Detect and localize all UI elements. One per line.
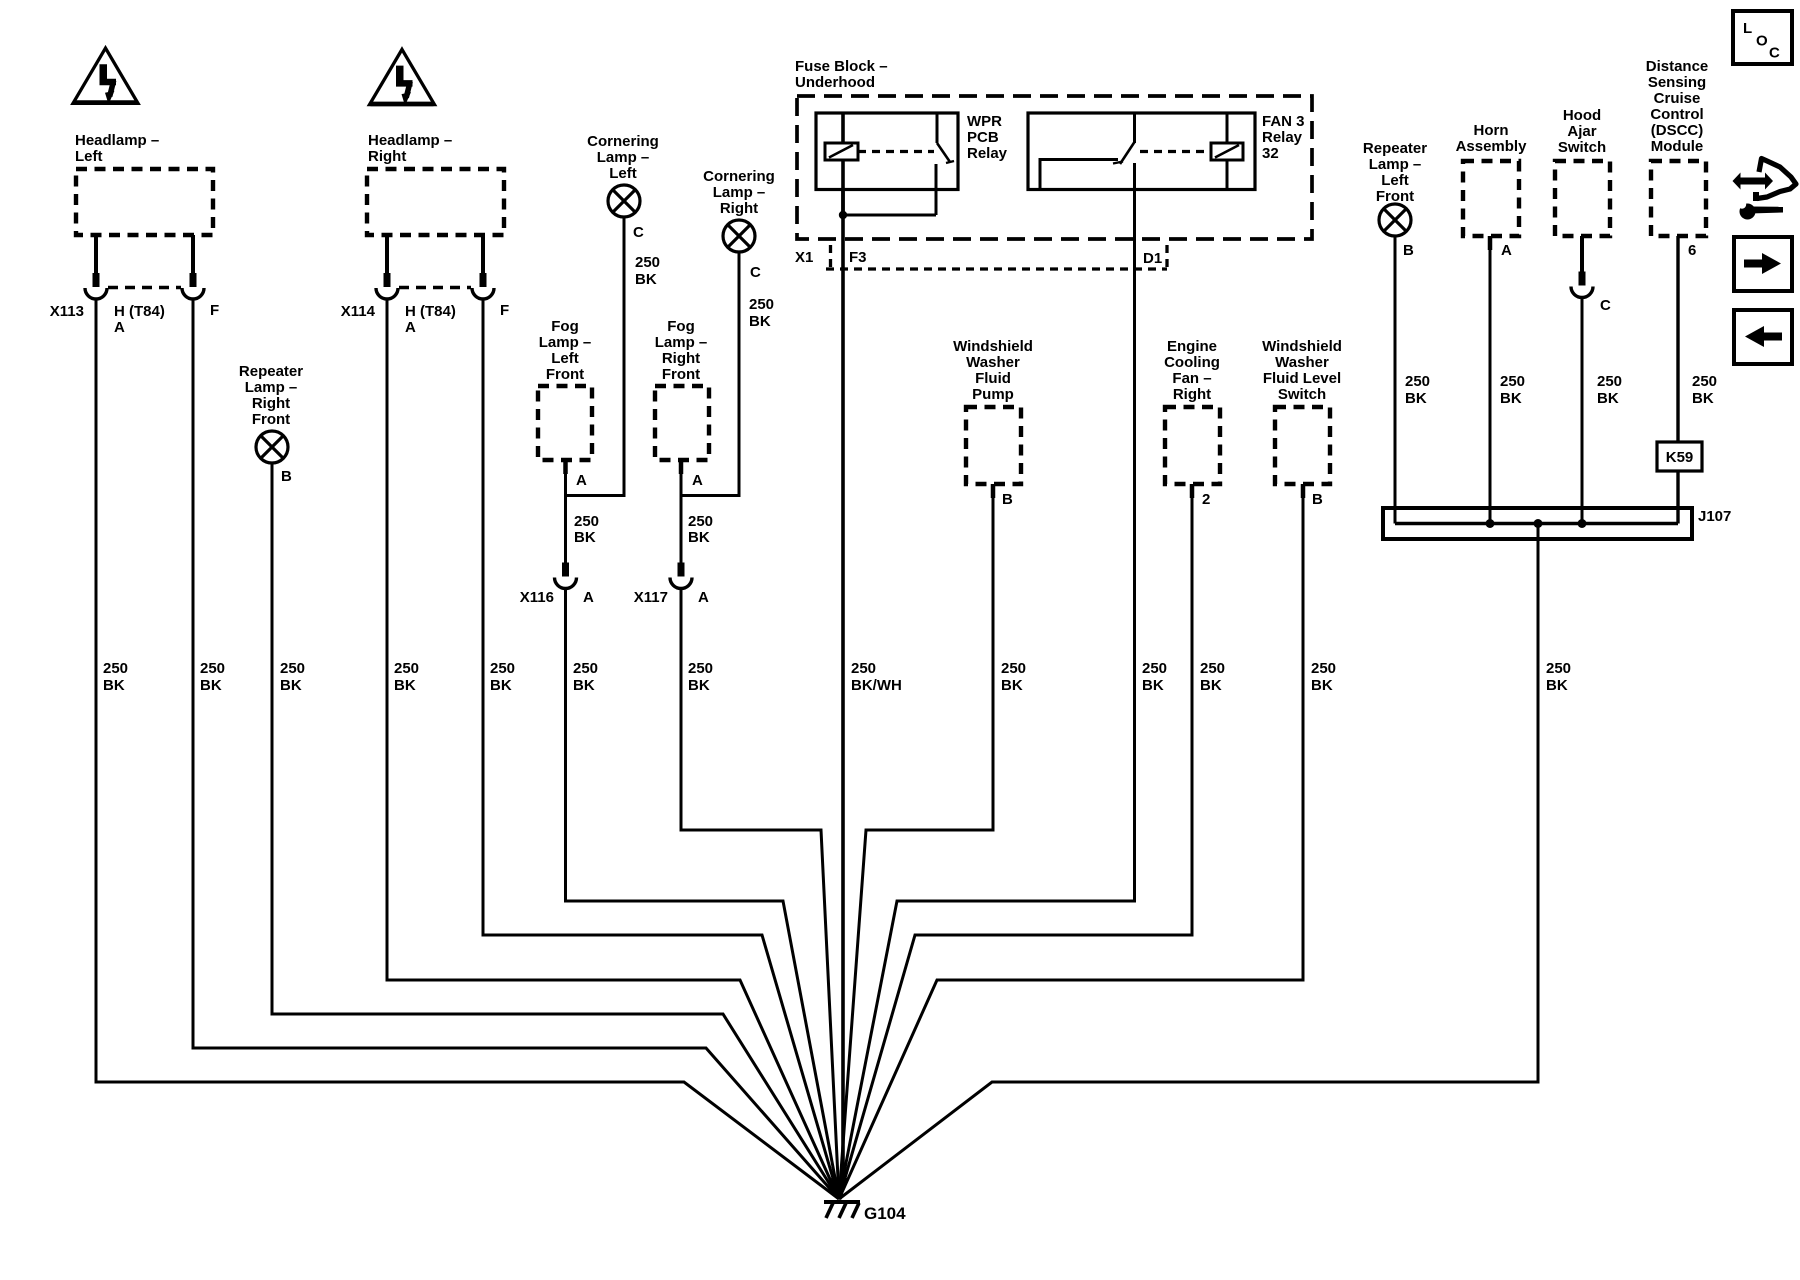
svg-text:2: 2 [1202, 491, 1210, 508]
svg-text:C: C [1769, 45, 1780, 62]
svg-text:Fluid Level: Fluid Level [1263, 370, 1341, 387]
svg-text:Sensing: Sensing [1648, 74, 1706, 91]
svg-text:Left: Left [1381, 172, 1409, 189]
svg-text:Distance: Distance [1646, 58, 1709, 75]
svg-text:K59: K59 [1666, 449, 1694, 466]
svg-text:Headlamp –: Headlamp – [368, 132, 452, 149]
svg-text:Lamp –: Lamp – [539, 334, 592, 351]
svg-text:Lamp –: Lamp – [1369, 156, 1422, 173]
svg-text:Right: Right [720, 200, 758, 217]
svg-text:250: 250 [573, 660, 598, 677]
svg-text:F: F [210, 302, 219, 319]
svg-text:X116: X116 [520, 589, 554, 606]
svg-text:Cruise: Cruise [1654, 90, 1701, 107]
svg-text:Switch: Switch [1278, 386, 1326, 403]
svg-text:BK: BK [1001, 677, 1023, 694]
svg-text:BK: BK [688, 677, 710, 694]
svg-text:Control: Control [1650, 106, 1703, 123]
svg-text:250: 250 [688, 660, 713, 677]
svg-text:Front: Front [546, 366, 584, 383]
svg-text:H (T84): H (T84) [114, 303, 165, 320]
svg-text:BK: BK [280, 677, 302, 694]
svg-text:X114: X114 [341, 303, 376, 320]
svg-text:250: 250 [280, 660, 305, 677]
svg-text:250: 250 [1546, 660, 1571, 677]
svg-text:250: 250 [1001, 660, 1026, 677]
svg-text:250: 250 [574, 513, 599, 530]
svg-text:250: 250 [394, 660, 419, 677]
svg-text:Cooling: Cooling [1164, 354, 1220, 371]
svg-text:Cornering: Cornering [587, 133, 659, 150]
svg-text:BK: BK [1200, 677, 1222, 694]
svg-text:A: A [698, 589, 709, 606]
svg-text:Fog: Fog [667, 318, 695, 335]
svg-text:D1: D1 [1143, 250, 1162, 267]
svg-text:A: A [405, 319, 416, 336]
svg-text:BK: BK [635, 271, 657, 288]
svg-text:(DSCC): (DSCC) [1651, 122, 1704, 139]
svg-text:BK: BK [1692, 390, 1714, 407]
svg-text:Relay: Relay [1262, 129, 1303, 146]
svg-text:BK: BK [1500, 390, 1522, 407]
svg-text:B: B [1002, 491, 1013, 508]
svg-text:250: 250 [1311, 660, 1336, 677]
svg-text:C: C [750, 264, 761, 281]
svg-text:BK: BK [1142, 677, 1164, 694]
svg-text:250: 250 [1597, 373, 1622, 390]
svg-text:WPR: WPR [967, 113, 1002, 130]
svg-text:G104: G104 [864, 1204, 906, 1223]
svg-text:Fuse Block –: Fuse Block – [795, 58, 888, 75]
svg-text:B: B [1403, 242, 1414, 259]
svg-text:FAN 3: FAN 3 [1262, 113, 1305, 130]
svg-text:Right: Right [252, 395, 290, 412]
svg-text:250: 250 [1692, 373, 1717, 390]
svg-text:Right: Right [1173, 386, 1211, 403]
svg-text:Left: Left [609, 165, 637, 182]
svg-text:Relay: Relay [967, 145, 1008, 162]
svg-text:Lamp –: Lamp – [713, 184, 766, 201]
svg-text:BK: BK [749, 313, 771, 330]
svg-text:Right: Right [368, 148, 406, 165]
svg-text:Repeater: Repeater [239, 363, 303, 380]
svg-text:250: 250 [490, 660, 515, 677]
svg-text:Underhood: Underhood [795, 74, 875, 91]
svg-text:Lamp –: Lamp – [245, 379, 298, 396]
svg-text:250: 250 [1405, 373, 1430, 390]
svg-text:Lamp –: Lamp – [597, 149, 650, 166]
svg-text:A: A [576, 472, 587, 489]
svg-text:BK: BK [574, 529, 596, 546]
svg-text:Module: Module [1651, 138, 1704, 155]
svg-text:Horn: Horn [1474, 122, 1509, 139]
svg-text:Front: Front [1376, 188, 1414, 205]
svg-text:BK: BK [1405, 390, 1427, 407]
svg-text:250: 250 [1500, 373, 1525, 390]
svg-text:L: L [1743, 20, 1752, 37]
svg-text:BK: BK [1597, 390, 1619, 407]
svg-text:Washer: Washer [966, 354, 1020, 371]
svg-text:Right: Right [662, 350, 700, 367]
svg-text:Front: Front [252, 411, 290, 428]
svg-text:PCB: PCB [967, 129, 999, 146]
svg-text:C: C [1600, 297, 1611, 314]
svg-text:Engine: Engine [1167, 338, 1217, 355]
svg-text:X1: X1 [795, 249, 813, 266]
svg-text:Fluid: Fluid [975, 370, 1011, 387]
svg-text:250: 250 [1200, 660, 1225, 677]
svg-text:Repeater: Repeater [1363, 140, 1427, 157]
svg-text:J107: J107 [1698, 508, 1731, 525]
svg-text:Assembly: Assembly [1456, 138, 1528, 155]
svg-text:250: 250 [635, 254, 660, 271]
svg-text:Cornering: Cornering [703, 168, 775, 185]
svg-text:H (T84): H (T84) [405, 303, 456, 320]
svg-text:32: 32 [1262, 145, 1279, 162]
svg-text:A: A [114, 319, 125, 336]
svg-text:BK/WH: BK/WH [851, 677, 902, 694]
svg-text:C: C [633, 224, 644, 241]
svg-text:Pump: Pump [972, 386, 1014, 403]
svg-text:Left: Left [551, 350, 579, 367]
svg-text:A: A [692, 472, 703, 489]
svg-text:250: 250 [688, 513, 713, 530]
svg-text:250: 250 [1142, 660, 1167, 677]
svg-text:F: F [500, 302, 509, 319]
svg-text:Fan –: Fan – [1172, 370, 1211, 387]
svg-text:A: A [583, 589, 594, 606]
svg-text:B: B [281, 468, 292, 485]
svg-text:250: 250 [851, 660, 876, 677]
svg-text:F3: F3 [849, 249, 867, 266]
svg-text:BK: BK [490, 677, 512, 694]
svg-text:BK: BK [1546, 677, 1568, 694]
svg-text:B: B [1312, 491, 1323, 508]
svg-text:Windshield: Windshield [953, 338, 1033, 355]
svg-text:250: 250 [200, 660, 225, 677]
svg-text:250: 250 [749, 296, 774, 313]
svg-text:Switch: Switch [1558, 139, 1606, 156]
svg-text:X113: X113 [50, 303, 84, 320]
svg-text:X117: X117 [634, 589, 668, 606]
svg-text:O: O [1756, 33, 1768, 50]
svg-text:A: A [1501, 242, 1512, 259]
svg-text:Front: Front [662, 366, 700, 383]
svg-text:BK: BK [103, 677, 125, 694]
svg-text:BK: BK [688, 529, 710, 546]
svg-text:BK: BK [1311, 677, 1333, 694]
svg-text:Ajar: Ajar [1567, 123, 1596, 140]
svg-text:BK: BK [394, 677, 416, 694]
svg-text:Left: Left [75, 148, 103, 165]
svg-text:BK: BK [200, 677, 222, 694]
svg-text:Washer: Washer [1275, 354, 1329, 371]
svg-text:250: 250 [103, 660, 128, 677]
svg-text:6: 6 [1688, 242, 1696, 259]
svg-text:Hood: Hood [1563, 107, 1601, 124]
svg-text:Headlamp –: Headlamp – [75, 132, 159, 149]
svg-text:BK: BK [573, 677, 595, 694]
svg-text:Fog: Fog [551, 318, 579, 335]
svg-text:Windshield: Windshield [1262, 338, 1342, 355]
svg-text:Lamp –: Lamp – [655, 334, 708, 351]
